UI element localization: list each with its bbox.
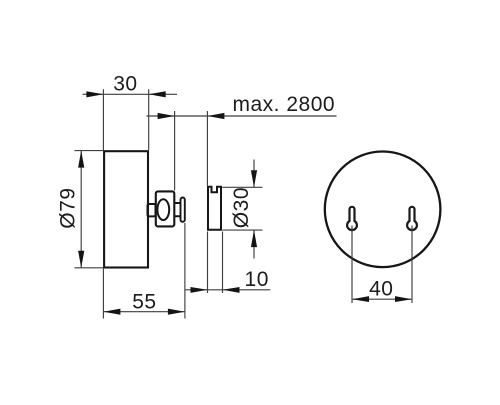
cable grip housing bbox=[156, 191, 175, 226]
dimension D30 lines bbox=[222, 160, 262, 259]
cable grip tab bbox=[148, 204, 156, 216]
svg-text:Ø79: Ø79 bbox=[57, 187, 80, 228]
dimension 40 lines bbox=[352, 226, 412, 304]
svg-text:max. 2800: max. 2800 bbox=[233, 93, 336, 116]
svg-text:30: 30 bbox=[113, 72, 137, 95]
dimension 40 arrows bbox=[352, 296, 412, 302]
dimension D30 arrows bbox=[251, 170, 257, 247]
dimension max 2800 lines bbox=[147, 111, 337, 190]
dimension D79 lines bbox=[75, 151, 105, 268]
svg-text:40: 40 bbox=[369, 278, 393, 301]
dimension 55 lines bbox=[103, 223, 184, 319]
dimension 30 lines bbox=[83, 89, 178, 150]
dimension 30 arrows bbox=[86, 91, 165, 97]
ceiling rose side view with notch bbox=[208, 187, 221, 230]
dimension D79 arrows bbox=[78, 151, 84, 268]
svg-text:55: 55 bbox=[132, 291, 156, 314]
front view circle bbox=[325, 152, 441, 268]
svg-text:10: 10 bbox=[245, 268, 269, 291]
cable grip ellipse bbox=[157, 199, 169, 220]
body side view bbox=[104, 151, 148, 267]
dimension 55 arrows bbox=[103, 309, 184, 315]
knob pill bbox=[181, 198, 185, 222]
left keyhole bbox=[347, 207, 357, 230]
svg-text:Ø30: Ø30 bbox=[230, 187, 253, 228]
dimension 10 arrows bbox=[191, 287, 240, 293]
dimension max 2800 arrows bbox=[158, 113, 225, 119]
dimension 10 lines bbox=[185, 232, 271, 294]
right keyhole bbox=[407, 207, 417, 230]
grip neck lines bbox=[174, 203, 180, 216]
